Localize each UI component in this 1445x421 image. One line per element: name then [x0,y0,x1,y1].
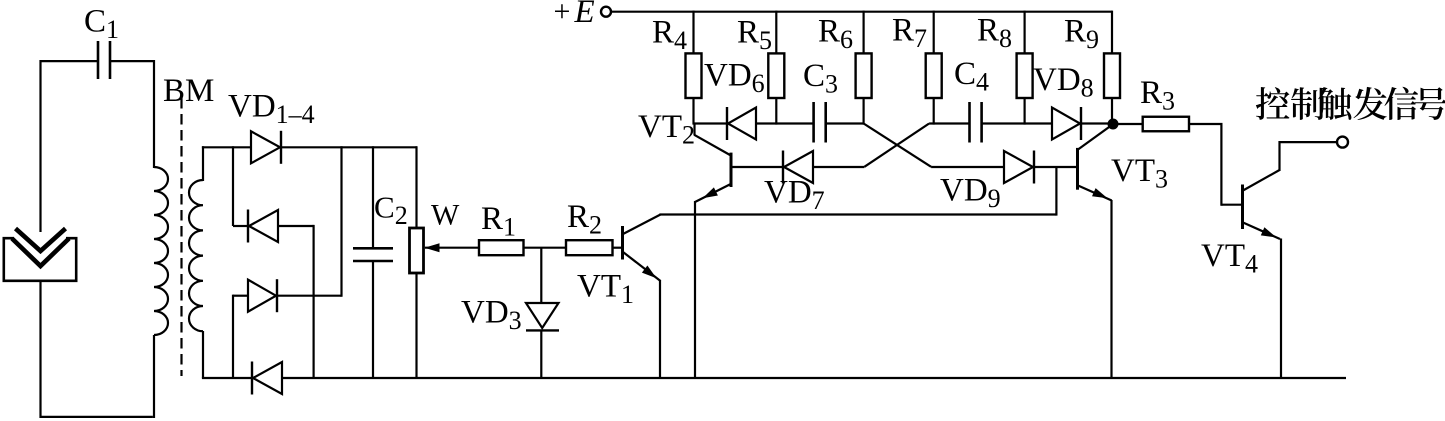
wire bottom rail start [202,377,252,379]
wire R3 right [1189,123,1223,125]
wire up to transducer bottom [39,281,41,418]
svg-text:R8: R8 [977,13,1012,54]
VT4 emitter arrow [1261,227,1277,237]
svg-text:C1: C1 [84,4,119,45]
wire R8 down [1023,98,1025,125]
wire VT2 emitter down [694,201,696,378]
wire secondary bottom lead [202,331,204,378]
wire VD7 to coupling [813,166,864,168]
wire bridge vertical D [340,146,342,297]
capacitor C3 [814,102,826,143]
wire rail to R9 [1111,11,1113,54]
resistor R4 [686,53,702,98]
wire R7 row to C4 [929,122,969,124]
svg-text:R2: R2 [567,199,602,240]
diode VD7 [784,151,813,183]
wire to VT4 base bar [1221,204,1241,206]
wire down to primary top [153,60,155,168]
capacitor C4 [970,102,982,143]
svg-text:VT1: VT1 [577,269,634,310]
wire VT1 emitter down [659,280,661,378]
wire row2 left [233,225,248,227]
wire top rail right [281,146,417,148]
wire VT4 emitter down [1280,239,1282,379]
wire VD8 to node [1082,122,1113,124]
resistor R1 [479,240,524,255]
wire +E rail [611,11,1112,13]
wire down to VD3 [540,248,542,304]
wire R1 to R2 [524,247,567,249]
caption 控制触发信号 (control trigger signal) [1256,87,1445,120]
output terminal [1337,137,1348,148]
wire VD9 to VT3 base [1034,166,1076,168]
svg-text:C4: C4 [954,56,989,97]
transistor VT1 [623,215,661,282]
svg-text:R5: R5 [737,15,772,56]
svg-text:R6: R6 [818,14,853,55]
wire bridge vertical C [232,295,234,378]
wire VT3 emitter down [1110,200,1112,378]
wire R9 down [1111,98,1113,125]
wire coupling to VD9 [931,166,1004,168]
transducer body [4,238,76,281]
transformer core dashed line [180,98,182,376]
diode VD9 [1004,151,1033,183]
wire primary bottom down [153,335,155,418]
resistor R6 [856,53,872,98]
capacitor C1 [98,41,110,79]
transformer secondary winding [189,180,203,331]
wire to C1 left plate [41,60,98,62]
transducer chevron lower [12,239,69,267]
diode VD8 [1052,108,1080,140]
wire transducer top to C1 [39,60,41,232]
diode VD4 [253,362,282,394]
resistor R9 [1104,53,1120,98]
wire row3 left [233,295,248,297]
VT1 emitter arrow [642,266,657,279]
wire VT4 collector up [1278,141,1280,171]
wire R7 down [933,98,935,125]
diode VD6 [728,108,756,140]
transformer primary winding [154,167,168,335]
wire cross coupling VD7 row to R7 [864,124,929,167]
wire R4 down [692,98,694,125]
resistor R5 [768,53,784,98]
wire R2 to VT1 base [613,247,622,249]
svg-text:VT3: VT3 [1111,153,1168,194]
wire VD3 to rail [540,331,542,378]
wire row3 right [278,295,342,297]
wire C2 top [372,146,374,247]
svg-text:VD8: VD8 [1033,62,1094,103]
wire VT2 base to VD7 [732,166,783,168]
svg-text:+: + [554,0,571,28]
diode VD3b [248,280,276,312]
potentiometer W [410,228,424,273]
node junction dot [1108,119,1119,130]
wire C1 to primary [110,60,154,62]
diode VD2 [249,210,278,242]
transistor VT2 [694,124,731,203]
wire to output terminal [1280,141,1338,143]
wire R4 to VD6 [694,122,728,124]
wire C2 bottom [372,262,374,378]
resistor R7 [926,53,942,98]
resistor R2 [566,240,613,255]
wire top rail left [202,146,251,148]
wire rail to R4 [692,11,694,54]
svg-text:R1: R1 [481,201,516,242]
svg-text:VD7: VD7 [764,175,825,216]
wire R5 down [775,98,777,125]
wire down to VT4 base [1220,124,1222,206]
svg-text:R3: R3 [1140,75,1175,116]
wire W bottom [415,272,417,378]
capacitor C2 [353,248,393,261]
wire C3 to R6 [826,122,864,124]
wire rail to R5 [775,11,777,54]
resistor R3 [1143,117,1189,132]
wire secondary top lead [202,146,204,181]
diode VD3 [526,303,559,330]
transistor VT3 [1078,126,1112,201]
svg-text:BM: BM [163,73,214,109]
resistor R8 [1017,53,1033,98]
terminal +E [601,7,611,17]
svg-text:VD9: VD9 [940,173,1001,214]
wire wiper arrow to R1 [425,247,479,249]
wire rail to R6 [862,11,864,54]
wire bottom left [41,416,153,418]
wire row2 right [278,225,314,227]
VT3 emitter arrow [1092,188,1108,198]
wire C4 to VD8 [982,122,1052,124]
wire cross coupling R6 to VD9 row [864,124,932,167]
wire rail to R8 [1023,11,1025,54]
svg-text:R9: R9 [1064,14,1099,55]
wire bridge vertical B [313,225,315,378]
wire node to R3 [1113,123,1143,125]
transistor VT4 [1243,170,1281,239]
svg-text:E: E [574,0,595,30]
VT2 emitter arrow [703,187,718,198]
svg-text:VT2: VT2 [638,109,695,150]
wire base net down [1055,167,1057,216]
svg-text:VD6: VD6 [704,58,765,99]
diode VD1 [251,131,280,163]
svg-text:W: W [431,199,460,232]
transducer chevron upper [16,229,66,252]
svg-text:VD1–4: VD1–4 [228,89,315,130]
svg-text:R4: R4 [652,15,687,56]
svg-text:R7: R7 [892,13,927,54]
wire bridge vertical A [232,146,234,226]
svg-text:C2: C2 [374,190,408,231]
wire W top [415,146,417,229]
wire rail to R7 [933,11,935,54]
wire VD6 to C3 [756,122,813,124]
wiper arrow W [425,243,440,252]
svg-text:VT4: VT4 [1201,238,1258,279]
svg-text:C3: C3 [803,58,838,99]
svg-text:VD3: VD3 [461,295,522,336]
wire VT1 collector to VT3 base net [659,213,1056,215]
wire bottom rail [282,377,1346,379]
wire R6 down [862,98,864,125]
